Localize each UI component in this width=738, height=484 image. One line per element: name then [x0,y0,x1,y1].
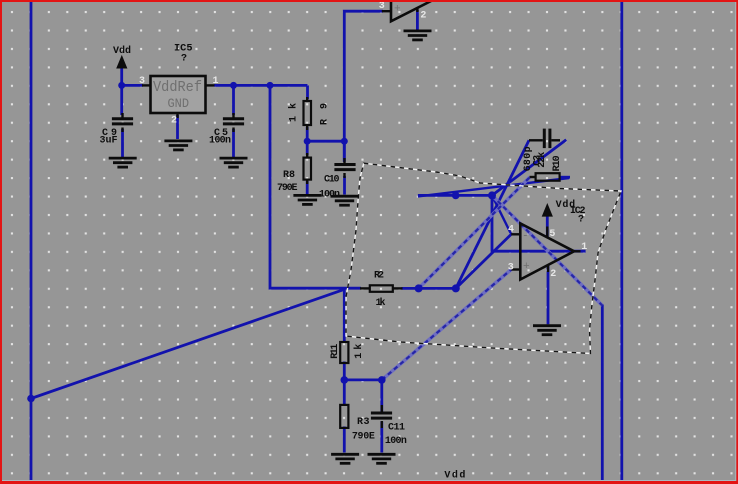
svg-text:R11: R11 [330,344,341,359]
svg-text:R3: R3 [357,417,370,428]
svg-text:R8: R8 [283,170,295,181]
svg-text:C10: C10 [324,174,340,185]
svg-text:VddRef: VddRef [153,80,202,96]
svg-text:3: 3 [508,263,514,274]
svg-text:Vdd: Vdd [113,45,131,57]
svg-text:-: - [522,231,529,243]
svg-text:100n: 100n [209,135,231,146]
svg-text:5: 5 [549,229,555,240]
svg-text:2: 2 [550,269,556,280]
svg-text:?: ? [181,53,187,64]
svg-text:GND: GND [168,97,190,111]
svg-text:790E: 790E [277,183,298,194]
svg-text:2: 2 [171,116,177,127]
svg-text:4: 4 [508,224,514,235]
svg-text:3: 3 [139,76,145,87]
svg-text:790E: 790E [352,431,375,442]
svg-text:1: 1 [581,242,587,253]
svg-text:1k: 1k [376,297,386,309]
svg-text:22k: 22k [536,152,548,168]
svg-text:+: + [394,4,401,16]
svg-text:?: ? [578,215,584,226]
svg-text:R2: R2 [374,271,384,282]
svg-text:R10: R10 [552,155,563,171]
svg-text:+: + [523,261,530,273]
svg-text:100n: 100n [385,436,407,447]
svg-text:C11: C11 [388,422,405,433]
svg-text:Vdd: Vdd [444,469,465,481]
svg-text:1: 1 [213,76,219,87]
svg-text:3uF: 3uF [100,135,118,146]
svg-text:100n: 100n [319,189,340,200]
svg-text:2: 2 [420,11,426,22]
svg-text:3: 3 [379,1,385,12]
